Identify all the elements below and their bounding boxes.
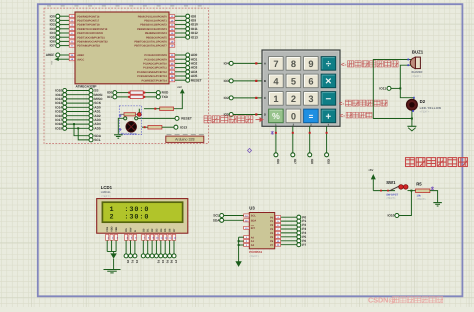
wire R5 to ground [430,191,438,203]
wire U1 to IO10 [175,24,186,26]
terminal P0 [124,254,128,258]
LCD1 screen [102,202,182,222]
svg-text:VEE: VEE [115,226,118,231]
board marker diamonds [119,114,122,117]
marker star near keypad column 1 [271,131,274,135]
wire LCD D2 down [151,240,153,253]
pin number box PB0 [169,15,174,18]
pin number box PD6 [69,40,74,43]
wire AVCC power [59,58,69,60]
wire LCD D3 down [155,240,157,253]
svg-text:2 :30:0: 2 :30:0 [110,214,150,222]
ground (R5) [433,202,442,204]
svg-text:IO2: IO2 [224,96,229,100]
keypad key 6 [304,74,319,88]
svg-text:4: 4 [273,76,279,86]
svg-text:PC1/ADC1/PCINT9: PC1/ADC1/PCINT9 [144,58,167,61]
annotation: time setting switch (large) [406,158,415,167]
keypad KP1 bezel [262,50,340,126]
svg-text:LM016L: LM016L [101,191,111,194]
wire IO1 to U1 [60,19,69,21]
terminal under D0 [141,254,145,258]
svg-text:IO9: IO9 [327,159,331,164]
header terminal AD0 right [89,105,93,109]
button pad right [135,117,138,120]
terminal IO10 [395,214,399,218]
svg-text:PC0/ADC0/PCINT8: PC0/ADC0/PCINT8 [144,54,167,57]
wire U1 to AD2 [175,62,186,64]
header terminal AD5 right [89,126,93,130]
terminal IO13 (module) [174,125,178,129]
ground (U3 address) [235,261,241,267]
terminal P2 [297,223,301,227]
keypad operator key − [321,92,336,106]
pin number box PC4 [169,70,174,73]
svg-text:1 :30:0: 1 :30:0 [110,206,150,214]
wire BUZ1 pin2 to IO11 / D2 anode [400,65,414,99]
wire keypad column 2 to IO7 [292,126,294,152]
wire VSS/VDD/VEE to ground [106,240,108,251]
wire LCD RW to P1 [130,240,132,253]
wire A1 to ground bus [239,240,244,242]
wire IO0 to link [117,92,130,94]
terminal IO11 [186,27,190,31]
wire A2 to ground bus [239,244,244,246]
svg-text:3: 3 [308,94,313,104]
wire U3 P7 to terminal [281,244,297,246]
svg-text:P7: P7 [174,260,178,264]
series resistor to IO13 LED [142,126,148,128]
annotation: time clear switch -> [204,116,211,123]
keypad key 0 [286,109,301,123]
svg-text:P5: P5 [165,260,169,264]
svg-text:−: − [326,94,332,105]
terminal IO6 [274,153,278,157]
svg-text:IO4: IO4 [224,62,229,66]
wire BUZ1 pin1 to D2 cathode / ground net [373,60,412,119]
header terminal SDA [89,134,93,138]
terminal RESET [186,78,190,82]
pin number box PD1 [69,19,74,22]
svg-text:PB2/SS/OC1B/PCINT2: PB2/SS/OC1B/PCINT2 [140,24,167,27]
svg-text:P7: P7 [302,243,306,247]
keypad key = (blue) [304,109,319,123]
svg-text:AREF: AREF [46,53,55,57]
wire +5V down to pullup resistor [174,93,183,108]
svg-text:1: 1 [273,94,278,104]
svg-text:PC5/ADC5/SCL/PCINT13: PC5/ADC5/SCL/PCINT13 [137,75,167,78]
wire LCD E to P2 [134,240,136,253]
terminal under D2 [150,254,154,258]
header terminal AD2 right [89,114,93,118]
terminal P2 [133,254,137,258]
wire U3 P5 to terminal [281,236,297,238]
header terminal AD4 right [89,122,93,126]
wire SCL to U3 [224,215,244,217]
terminal IO8 [186,14,190,18]
svg-text:÷: ÷ [326,59,332,70]
wire LCD RS to P0 [125,240,127,253]
svg-text:<TEXT>: <TEXT> [386,197,396,200]
svg-text:RS: RS [125,228,128,232]
wire tap to SDA header [74,124,89,136]
svg-text:P3: P3 [157,260,161,264]
svg-text:+5V: +5V [50,60,53,65]
wire IO4 to keypad [233,62,262,64]
svg-text:P4: P4 [161,260,165,264]
terminal under D6 [168,254,172,258]
terminal TXD [156,95,160,99]
svg-text:RESET: RESET [181,117,192,121]
wire keypad column 1 to IO6 [275,126,277,152]
pin number box PD2 [69,23,74,26]
pin number box PD0 [69,15,74,18]
marker diamond (origin) [248,148,252,152]
LED D2 [407,99,418,110]
reset push button board (selected, blue dashed) [119,106,141,135]
svg-text:<-: <- [340,114,346,120]
wire U1 to AD4 [175,71,186,73]
header terminal AD3 right [89,118,93,122]
pin number box PD3 [69,27,74,30]
wire U1 to AD5 [175,75,186,77]
wire tap to SCL header [78,128,89,140]
wire resistor to IO13 terminal [162,126,174,128]
wire IO2 to keypad [233,97,262,99]
keypad key 3 [304,92,319,106]
ground arrow (LCD supply) [110,253,116,258]
pin number box PB4 [169,31,174,34]
header terminal AD1 right [89,110,93,114]
pin number box PC2 [169,62,174,65]
pin number box PC0 [169,54,174,57]
wire U1 to IO11 [175,28,186,30]
svg-text:CSDN@: CSDN@ [368,296,395,305]
svg-text:BUZZER: BUZZER [412,71,423,74]
ground (reset button) [114,134,123,136]
terminal IO9 [325,153,329,157]
wire U3 P3 to terminal [281,228,297,230]
U3 PCF8574 body [249,213,274,249]
keypad operator key ÷ [321,57,336,71]
header terminal MISO right [89,97,93,101]
terminal IO8 [308,153,312,157]
wire U1 to IO13 [175,36,186,38]
svg-text:SDA: SDA [251,219,257,222]
svg-text:P6: P6 [170,260,174,264]
svg-text:PB6/TOSC1/XTAL1/PCINT6: PB6/TOSC1/XTAL1/PCINT6 [134,41,167,44]
svg-text:5: 5 [291,76,296,86]
svg-text:A1: A1 [251,240,255,243]
wire SDA to U3 [224,219,244,221]
pin number box PC1 [169,58,174,61]
svg-text:2: 2 [291,94,296,104]
wire header row AD3 [67,119,89,121]
svg-text:PD1/TXD/PCINT17: PD1/TXD/PCINT17 [77,20,100,23]
svg-text:PD7/AIN1/PCINT23: PD7/AIN1/PCINT23 [77,45,100,48]
svg-text:Arduino 328: Arduino 328 [175,138,194,142]
ground bus for U3 address pins [238,237,240,261]
svg-text:8: 8 [291,59,296,69]
keypad operator key × [321,74,336,88]
svg-text:+5V: +5V [177,86,182,89]
wire U1 to AD1 [175,58,186,60]
svg-text:×: × [325,75,331,87]
svg-text:RESET: RESET [191,78,202,82]
wire U1 to IO8 [175,15,186,17]
keypad key 5 [286,74,301,88]
svg-text:P2: P2 [135,260,139,264]
svg-text:PB5/SCK/PCINT5: PB5/SCK/PCINT5 [146,36,167,39]
wire header row AD0 [67,106,89,108]
pin number box PB1 [169,19,174,22]
wire IO0 to U1 [60,15,69,17]
svg-text:P0: P0 [126,260,130,264]
wire LED to pullup net [138,109,140,113]
pin number box PD4 [69,31,74,34]
wire button to ground [118,118,123,134]
keypad operator key + [321,109,336,123]
wire LCD D0 down [142,240,144,253]
wire IO1 to link [117,96,130,98]
wire header row MOSI [67,94,89,96]
wire LCD D6 down [169,240,171,253]
wire header row SS [67,90,89,92]
svg-text:SCL: SCL [213,214,219,218]
svg-text:IO13: IO13 [180,125,187,129]
svg-text:P1: P1 [131,260,135,264]
keypad key 4 [269,74,284,88]
terminal P7 [297,243,301,247]
svg-text:IO6: IO6 [276,159,280,164]
terminal under D1 [146,254,150,258]
svg-text:PD2/INT0/PCINT18: PD2/INT0/PCINT18 [77,24,100,27]
terminal P4 [297,231,301,235]
svg-text:PB3/MOSI/OC2A/PCINT3: PB3/MOSI/OC2A/PCINT3 [137,28,167,31]
header terminal SS right [89,89,93,93]
terminal P0 [297,215,301,219]
wire IO6 to U1 [60,40,69,42]
terminal P1 [297,219,301,223]
svg-text:A0: A0 [251,236,255,239]
svg-text:IO10: IO10 [387,214,394,218]
pin number box PC3 [169,66,174,69]
terminal IO12 [186,31,190,35]
wire pullup to reset button [144,108,160,110]
pin number box PB6 [169,40,174,43]
wire IO4 to U1 [60,32,69,34]
pin number box PC6 [169,79,174,82]
svg-text:IO1: IO1 [107,95,112,99]
wire LCD D5 down [164,240,166,253]
svg-text:VSS: VSS [106,226,109,231]
svg-text:6: 6 [308,76,313,86]
wire U3 P6 to terminal [281,240,297,242]
wire header row AD2 [67,115,89,117]
wire U3 P4 to terminal [281,232,297,234]
subsystem boundary (red dashed) around Arduino 328 module [44,8,209,143]
wire header row AD1 [67,111,89,113]
pin number box PD5 [69,36,74,39]
board LED (red) [137,113,141,117]
svg-text:SCL: SCL [251,215,257,218]
pullup resistor [160,107,174,111]
header terminal MOSI right [89,93,93,97]
pin number box PD7 [69,44,74,47]
wire U1 to AD0 [175,54,186,56]
wire AREF to U1 [60,54,69,56]
svg-text:<-: <- [341,62,347,68]
header terminal SCK right [89,101,93,105]
keypad key ON/C (green) [269,109,284,123]
pin number box PB3 [169,27,174,30]
svg-text:PC3/ADC3/PCINT11: PC3/ADC3/PCINT11 [143,67,167,70]
push button cap [126,122,137,133]
svg-text:PD4/T0/XCK/PCINT20: PD4/T0/XCK/PCINT20 [77,32,103,35]
svg-text:PD6/AIN0/OC0A/PCINT22: PD6/AIN0/OC0A/PCINT22 [77,41,108,44]
svg-text:U3: U3 [249,205,255,210]
svg-text:IO3: IO3 [224,79,229,83]
wire keypad column 3 to IO8 [309,126,311,152]
wire IO5 to keypad [233,114,262,116]
svg-text:+: + [326,111,332,122]
terminal IO9 [186,18,190,22]
wire IO3 to keypad [233,80,262,82]
svg-text:7: 7 [273,59,278,69]
svg-text:LED-YELLOW: LED-YELLOW [420,106,442,110]
terminal P5 [297,235,301,239]
terminal IO7 [291,153,295,157]
keypad key 7 [269,57,284,71]
wire IO2 to U1 [60,24,69,26]
wire U3 P2 to terminal [281,224,297,226]
wire U1 to IO9 [175,19,186,21]
terminal AD4 [186,70,190,74]
header terminal SCL [89,138,93,142]
svg-text:PCF8574: PCF8574 [249,250,262,254]
terminal under D3 [154,254,158,258]
svg-text:A2: A2 [251,244,255,247]
svg-text:PB1/OC1A/PCINT1: PB1/OC1A/PCINT1 [144,20,167,23]
pin number box PB7 [169,44,174,47]
grey text dashes above module label [167,134,204,136]
svg-text:SW1: SW1 [386,180,396,185]
svg-text:PC4/ADC4/SDA/PCINT12: PC4/ADC4/SDA/PCINT12 [137,71,167,74]
ground (LCD) [104,269,121,271]
svg-text:PD5/T1/OC0B/PCINT21: PD5/T1/OC0B/PCINT21 [77,36,105,39]
terminal AD2 [186,61,190,65]
keypad key 1 [269,92,284,106]
wire keypad column 4 to IO9 [326,126,328,152]
wire IO11 to net [391,87,400,89]
svg-text:IO13: IO13 [191,35,198,39]
svg-text:+5V: +5V [368,168,373,172]
svg-text:PD0/RXD/PCINT16: PD0/RXD/PCINT16 [77,15,100,18]
svg-text:9: 9 [308,59,313,69]
button board resistor [124,113,136,116]
wire IO5 to U1 [60,36,69,38]
svg-text:R5: R5 [416,181,422,186]
svg-text:INT: INT [251,227,256,230]
wire LCD D7 down [173,240,175,253]
wire U1 to IO12 [175,32,186,34]
wire U1 to AD3 [175,67,186,69]
wire U3 P0 to terminal [281,216,297,218]
keypad key 8 [286,57,301,71]
svg-text:<TEXT>: <TEXT> [101,195,111,198]
svg-text:<TEXT>: <TEXT> [417,198,427,201]
module label box Arduino 328 [166,136,204,142]
pin number box PC5 [169,75,174,78]
svg-text:PD3/INT1/OC2B/PCINT19: PD3/INT1/OC2B/PCINT19 [77,28,108,31]
svg-text:IO19: IO19 [55,126,62,130]
svg-text:PB7/TOSC2/XTAL2/PCINT7: PB7/TOSC2/XTAL2/PCINT7 [134,45,167,48]
svg-text:%: % [272,111,280,121]
svg-text:IO11: IO11 [379,87,386,91]
series link TXD (jumper resistor) [128,96,130,98]
terminal IO13 [186,35,190,39]
terminal under D5 [163,254,167,258]
svg-text:LCD1: LCD1 [101,185,113,190]
terminal RESET (module) [138,117,175,119]
wire header row AD4 [67,123,89,125]
svg-text:<TEXT>: <TEXT> [249,255,259,258]
terminal under D4 [159,254,163,258]
series link RXD (jumper resistor) [128,92,130,94]
wire link to RXD [145,92,156,94]
microcontroller U1 ATMEGA328P body [75,12,169,84]
wire header row SCK [67,102,89,104]
keypad key 9 [304,57,319,71]
svg-text:SCL: SCL [94,138,100,142]
svg-text:IO8: IO8 [310,159,314,164]
terminal AD3 [186,66,190,70]
wire IO7 to U1 [60,45,69,47]
svg-text:VDD: VDD [111,226,114,231]
svg-text:PC2/ADC2/PCINT10: PC2/ADC2/PCINT10 [143,63,167,66]
svg-text:PB4/MISO/PCINT4: PB4/MISO/PCINT4 [145,32,168,35]
svg-text:TXD: TXD [162,95,169,99]
svg-text:<TEXT>: <TEXT> [420,111,430,114]
svg-text:D2: D2 [420,99,426,104]
terminal RXD [156,91,160,95]
svg-text:=: = [309,112,314,121]
wire header row MISO [67,98,89,100]
svg-text:BUZ1: BUZ1 [412,50,424,55]
svg-text:<-: <- [339,102,345,108]
svg-text:AVCC: AVCC [77,58,84,61]
pin number box PB2 [169,23,174,26]
svg-text:AD5: AD5 [94,126,101,130]
ground (buzzer / LED) [407,125,416,127]
terminal AD5 [186,74,190,78]
wire link to TXD [145,96,156,98]
wire LCD D1 down [147,240,149,253]
svg-text:PB0/ICP1/CLKO/PCINT0: PB0/ICP1/CLKO/PCINT0 [138,15,168,18]
svg-text:RW: RW [130,227,133,232]
keypad key 2 [286,92,301,106]
wire U1 to RESET [175,79,186,81]
wire header row AD5 [67,127,89,129]
wire IO3 to U1 [60,28,69,30]
svg-text:0: 0 [291,111,296,121]
LCD1 body [97,199,188,234]
wire D2 cathode to ground [411,110,413,126]
svg-text:PC6/RESET/PCINT14: PC6/RESET/PCINT14 [141,79,167,82]
wire LCD D4 down [160,240,162,253]
svg-text:<TEXT>: <TEXT> [412,75,422,78]
svg-text:IO7: IO7 [293,159,297,164]
